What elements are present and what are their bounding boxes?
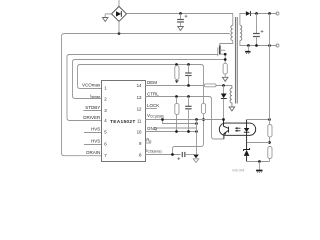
- wire pin9 stub: [145, 142, 151, 144]
- svg-text:14: 14: [137, 83, 142, 88]
- wire VCO rail y64.8: [78, 65, 202, 68]
- op IC U1 TEA1502T box: [102, 81, 146, 162]
- vertical V1 rail to pin8 net: [201, 65, 204, 104]
- capacitor Cb: [185, 97, 191, 132]
- node VCC jog right: [195, 122, 198, 125]
- ground (Ra, small arrow): [175, 80, 179, 83]
- wire pin4 DRIVER loop: [67, 57, 102, 121]
- node feedback crossing: [268, 44, 271, 47]
- ground (secondary, bar style): [245, 46, 250, 54]
- wire pin8 line: [145, 154, 180, 156]
- resistor R-sense: [223, 63, 227, 74]
- svg-text:1: 1: [104, 85, 107, 90]
- node Isense tap: [224, 58, 227, 61]
- wire Isense tap y60.0: [73, 60, 226, 63]
- svg-text:VCC(USB): VCC(USB): [147, 113, 164, 119]
- wire pin2 Isense loop: [73, 62, 102, 99]
- wire gnd vertical: [196, 120, 198, 155]
- svg-text:4: 4: [104, 118, 107, 123]
- wire pin11 VCC line: [145, 119, 223, 121]
- transformer T1 primary winding: [231, 25, 233, 40]
- MOSFET Q1 channel bar: [219, 46, 221, 55]
- wire V1 lower: [173, 114, 204, 155]
- wire secondary bottom rail: [240, 41, 277, 46]
- MOSFET bulk stub: [220, 49, 225, 51]
- svg-text:6: 6: [104, 141, 107, 146]
- svg-text:3: 3: [104, 108, 107, 113]
- wire pin14 DEM line: [145, 85, 232, 87]
- resistor R-fb2: [268, 147, 272, 162]
- optocoupler U2 body: [219, 123, 255, 135]
- node source: [224, 53, 227, 56]
- node Cb top: [187, 95, 190, 98]
- wire secondary top to diode: [240, 14, 246, 26]
- wire pin5 HVS stub: [84, 132, 102, 134]
- svg-text:5: 5: [104, 129, 107, 134]
- ground (secondary 2, bar): [256, 162, 262, 173]
- opto light arrows: [235, 127, 241, 132]
- svg-text:HVS: HVS: [91, 139, 100, 144]
- svg-text:GND: GND: [147, 126, 158, 131]
- resistor Rb: [175, 97, 179, 131]
- node HV+ / C-bulk junction: [179, 12, 182, 15]
- resistor Rc on V1: [201, 103, 205, 113]
- svg-text:CTRL: CTRL: [147, 92, 159, 97]
- svg-text:12: 12: [137, 106, 142, 111]
- ground (aux): [229, 103, 235, 111]
- node Ca top: [187, 63, 190, 66]
- ground (C-bulk): [178, 27, 184, 31]
- svg-text:DRAIN: DRAIN: [86, 150, 100, 155]
- ground (sense): [222, 74, 228, 81]
- svg-text:ICO(sens): ICO(sens): [146, 148, 161, 154]
- ground (bridge AC): [102, 14, 108, 22]
- node pin8 bridge: [171, 153, 174, 156]
- svg-text:STDBY: STDBY: [85, 105, 100, 110]
- svg-text:mlb 094: mlb 094: [232, 169, 245, 173]
- node cap bottom: [255, 44, 258, 47]
- IC pin labels left: [82, 83, 101, 156]
- node cap top: [255, 12, 258, 15]
- svg-text:8: 8: [139, 152, 142, 157]
- wire pin3 STDBY stub: [83, 110, 101, 112]
- svg-text:9: 9: [139, 141, 142, 146]
- node divider mid: [268, 141, 271, 144]
- polarity mark C-pin8: [177, 157, 180, 160]
- polarity mark C-bulk: [185, 15, 188, 18]
- ground (IC, arrow): [193, 155, 199, 163]
- node gnd Rb: [175, 130, 178, 133]
- diode D-vcc: [221, 86, 227, 120]
- wire bridge bottom: [118, 21, 120, 33]
- MOSFET source stub: [220, 54, 225, 63]
- wire pin7 DRAIN loop: [62, 36, 102, 156]
- wire pin6 HVS stub: [84, 144, 102, 146]
- svg-text:Rb: Rb: [146, 138, 151, 144]
- wire bridge left to ground: [105, 13, 111, 15]
- node DEM diode tap: [222, 84, 225, 87]
- wire bridge minus rail y33.5: [62, 34, 230, 37]
- resistor R-fb1: [268, 125, 272, 138]
- node divider top tap: [268, 118, 271, 121]
- wire R-fb1 to node: [269, 137, 271, 144]
- bridge rectifier B1: [112, 0, 127, 21]
- capacitor C-pin8 (series): [182, 152, 196, 157]
- wire LED anode to divider: [247, 119, 270, 121]
- opto LED: [244, 120, 250, 143]
- transformer T1 secondary winding: [240, 25, 242, 40]
- svg-text:DRIVER: DRIVER: [83, 115, 101, 120]
- node gnd vert: [195, 130, 198, 133]
- svg-text:TEA1502T: TEA1502T: [110, 119, 136, 125]
- wire HV+ rail: [127, 14, 233, 26]
- node sec gnd2: [258, 160, 261, 163]
- wire gnd upper jog: [156, 128, 197, 132]
- node Rb top: [175, 95, 178, 98]
- wire feedback vertical: [269, 14, 271, 125]
- svg-text:DEM: DEM: [147, 80, 157, 85]
- wire bottom feedback: [247, 161, 270, 163]
- wire VCC jog via x162.5: [163, 120, 197, 124]
- svg-text:10: 10: [137, 129, 142, 134]
- node feedback top: [268, 12, 271, 15]
- wire pin1 VCO loop: [78, 67, 102, 89]
- wire primary bottom to MOSFET drain: [220, 41, 233, 46]
- wire mid tap to zener: [247, 142, 270, 144]
- zener Z1: [244, 143, 250, 162]
- svg-text:LOCK: LOCK: [147, 103, 159, 108]
- node sec ground: [247, 44, 250, 47]
- wire output + rail: [250, 13, 277, 15]
- node VCC jog top: [161, 118, 164, 121]
- diode D-out: [246, 11, 251, 16]
- node VCC gnd vertical: [195, 118, 198, 121]
- wire pin12 LOCK stub: [145, 108, 157, 110]
- resistor Rd (DEM series): [204, 84, 216, 87]
- opto transistor: [224, 120, 229, 140]
- svg-text:13: 13: [137, 95, 142, 100]
- terminal - output: [276, 44, 279, 47]
- resistor Ra: [175, 66, 179, 81]
- terminal + output: [276, 12, 279, 15]
- capacitor Ca: [185, 65, 191, 86]
- node Ra top: [175, 63, 178, 66]
- svg-text:11: 11: [137, 118, 142, 123]
- transformer aux winding: [230, 86, 232, 107]
- svg-text:7: 7: [104, 153, 107, 158]
- node VCC opto collector: [222, 118, 225, 121]
- svg-text:HVS: HVS: [91, 127, 100, 132]
- polarity mark C-out: [261, 30, 264, 33]
- capacitor C-out: [253, 14, 260, 46]
- IC pin numbers: [104, 85, 107, 157]
- transformer core: [234, 17, 236, 104]
- MOSFET Q1 gate bar: [217, 48, 219, 57]
- svg-text:VCOmax: VCOmax: [82, 83, 101, 88]
- node Ca bottom: [187, 84, 190, 87]
- node gnd Cb: [187, 130, 190, 133]
- wire gate drive y54.5: [67, 55, 218, 58]
- svg-text:Isense: Isense: [90, 94, 100, 100]
- wire pin10 GND line: [145, 131, 196, 133]
- wire pin13 CTRL line: [145, 97, 224, 140]
- node bridge bottom: [118, 32, 121, 35]
- svg-text:2: 2: [104, 97, 107, 102]
- node V1 vcc crossing: [202, 118, 205, 121]
- capacitor C-bulk: [177, 14, 184, 27]
- IC pin labels right: [146, 80, 164, 154]
